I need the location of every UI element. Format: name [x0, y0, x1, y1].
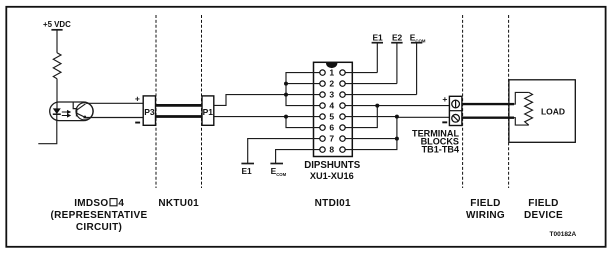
opto light arrow 2: [62, 115, 68, 116]
junction dot row5 right: [395, 115, 399, 119]
cable P3-P1 conductor 1: [156, 104, 203, 107]
optocoupler body outline: [50, 102, 93, 121]
terminal bar E1 (top): [372, 42, 383, 44]
terminal bar E2 (top): [391, 42, 402, 44]
wire: branch pin5 to pin 6: [286, 117, 320, 128]
wire: load bottom lead: [514, 118, 529, 125]
svg-text:CIRCUIT): CIRCUIT): [76, 222, 122, 233]
wire: load top lead: [514, 92, 529, 104]
ground terminal bar E1 (bottom): [241, 163, 254, 165]
terminal block divider: [449, 110, 462, 112]
phototransistor circle: [76, 103, 93, 120]
field device box: [509, 80, 575, 143]
wire: pin 7 to ground E1: [248, 139, 320, 164]
svg-text:LOAD: LOAD: [541, 107, 565, 117]
wire: P1 (+) step up to row3 bus: [214, 95, 286, 106]
wire: E2 drop to pin 2: [396, 43, 398, 84]
svg-text:DIPSHUNTS: DIPSHUNTS: [304, 160, 361, 171]
section divider dashed line 2 (NKTU01 / NTDI01): [201, 15, 203, 188]
emitter diagonal: [77, 113, 87, 118]
svg-text:P1: P1: [203, 107, 214, 117]
+5 VDC supply terminal bar: [51, 29, 62, 31]
wire: pin 2 right stub to E2: [345, 83, 397, 85]
section divider dashed line 1 (IMDSO / NKTU01): [155, 15, 157, 188]
wire: pin 3 right stub to Ecom: [345, 94, 417, 96]
label - at P3: [135, 122, 140, 124]
wire: left bus pins 1-4: [286, 73, 320, 106]
section divider dashed line 4 (FIELD WIRING / FIELD DEVICE): [508, 15, 510, 188]
terminal screw bottom: [452, 114, 460, 122]
svg-text:1: 1: [329, 68, 334, 78]
svg-text:XU1-XU16: XU1-XU16: [310, 171, 354, 181]
svg-text:5: 5: [329, 112, 334, 122]
wire: LED cathode down and left (return): [38, 114, 57, 144]
junction dot row4 right: [375, 104, 379, 108]
ground terminal bar Ecom (bottom): [270, 163, 283, 165]
svg-text:NKTU01: NKTU01: [158, 198, 199, 209]
terminal bar Ecom (top): [411, 42, 422, 44]
svg-text:NTDI01: NTDI01: [315, 198, 351, 209]
wire: pin4 right to terminal +: [345, 105, 449, 107]
connector P3: [143, 96, 155, 125]
svg-text:(REPRESENTATIVE: (REPRESENTATIVE: [51, 210, 148, 221]
wire: collector to P3 (+): [86, 102, 143, 104]
terminal screw bottom slot: [453, 116, 458, 121]
load resistor zigzag: [525, 92, 533, 125]
svg-text:WIRING: WIRING: [466, 210, 505, 221]
svg-text:DEVICE: DEVICE: [524, 210, 563, 221]
wire: branch row5 to pin 7 and pin 8: [345, 117, 397, 150]
DIP shunt package outline: [314, 62, 353, 156]
label IMDSO[]4 (REPRESENTATIVE CIRCUIT): [51, 198, 563, 233]
collector diagonal: [77, 104, 86, 110]
wire: pin 8 to ground Ecom: [276, 150, 320, 164]
wire: bus stub pin 3: [286, 94, 320, 96]
svg-text:IMDSO: IMDSO: [74, 198, 108, 209]
LED cathode bar: [53, 113, 61, 115]
svg-text:E1: E1: [241, 166, 252, 176]
svg-text:T00182A: T00182A: [550, 231, 577, 238]
junction dot bus row3: [284, 93, 288, 97]
connector P1: [202, 96, 214, 125]
wire: branch row4 to pin 6: [345, 106, 377, 128]
DIP socket holes left column: [320, 70, 345, 152]
svg-text:+5 VDC: +5 VDC: [43, 20, 71, 29]
LED D1 triangle (filled): [53, 108, 61, 114]
terminal screw top slot: [455, 100, 457, 108]
wire: Ecom drop to pin 3: [416, 43, 418, 95]
DIP notch: [326, 63, 337, 68]
DIP socket holes right column: [340, 70, 345, 75]
wire: P1 (-) to pin 5: [214, 116, 320, 118]
field wiring conductor -: [462, 116, 514, 118]
svg-text:3: 3: [329, 90, 334, 100]
svg-text:6: 6: [329, 123, 334, 133]
wire: emitter to P3 (-): [87, 117, 143, 119]
svg-text:FIELD: FIELD: [528, 198, 558, 209]
resistor R (current limit) zigzag: [53, 53, 61, 79]
svg-text:P3: P3: [144, 107, 155, 117]
wire: bus stub pin 2: [286, 83, 320, 85]
wire: supply to resistor: [56, 31, 58, 53]
field wiring stub - into box: [509, 116, 514, 118]
section divider dashed line 3 (NTDI01 / FIELD WIRING): [462, 15, 464, 188]
opto light arrow 1: [62, 110, 88, 119]
svg-text:FIELD: FIELD: [470, 198, 500, 209]
svg-text:4: 4: [329, 101, 334, 111]
svg-text:E1: E1: [372, 32, 383, 42]
svg-text:TB1-TB4: TB1-TB4: [422, 145, 460, 155]
svg-text:+: +: [135, 94, 140, 104]
terminal screw top: [452, 100, 460, 108]
field wiring conductor +: [462, 103, 514, 105]
field wiring stub + into box: [509, 103, 514, 105]
junction dot row7 right: [395, 137, 399, 141]
wire: pin5 right to terminal -: [345, 116, 398, 118]
phototransistor base lead and bar: [73, 102, 76, 108]
svg-text:E2: E2: [392, 32, 403, 42]
cable P3-P1 conductor 2: [156, 115, 203, 118]
wire: resistor to LED anode: [56, 79, 58, 109]
svg-text:2: 2: [329, 79, 334, 89]
DIP pin numbers 1-8: [329, 68, 334, 155]
label - at terminal: [442, 121, 447, 123]
svg-text:+: +: [442, 94, 447, 104]
IMDSO box placeholder glyph: [110, 199, 117, 206]
svg-text:7: 7: [329, 134, 334, 144]
wire: E1 drop to pin 1: [376, 43, 378, 73]
junction dot row5 left: [284, 115, 288, 119]
svg-text:4: 4: [118, 198, 124, 209]
svg-text:8: 8: [329, 145, 334, 155]
terminal block TB body: [449, 96, 462, 125]
junction dot bus row2: [284, 82, 288, 86]
emitter arrowhead: [83, 115, 88, 119]
wire: pin 1 right stub to E1: [345, 72, 377, 74]
